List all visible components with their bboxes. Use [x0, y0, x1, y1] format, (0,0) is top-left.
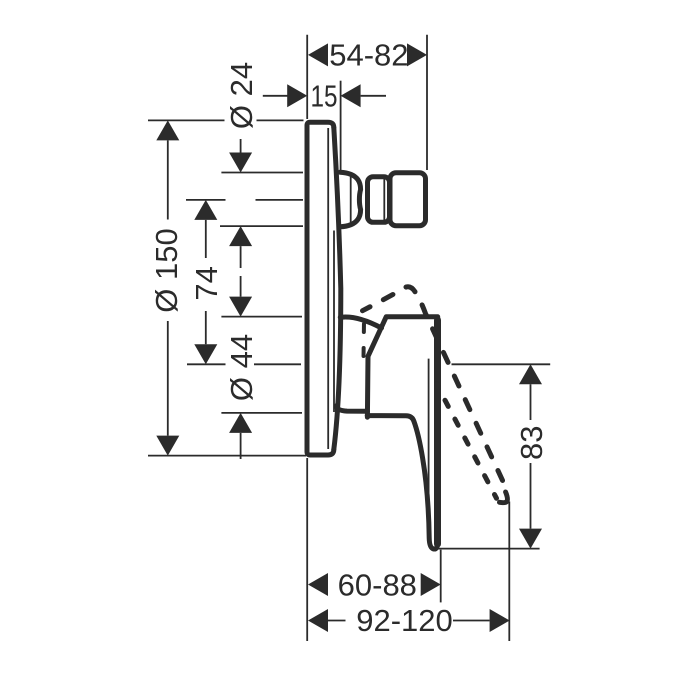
svg-text:54-82: 54-82: [329, 38, 408, 73]
svg-text:92-120: 92-120: [356, 603, 453, 638]
svg-text:60-88: 60-88: [338, 567, 417, 602]
svg-text:15: 15: [311, 79, 338, 114]
svg-text:Ø 44: Ø 44: [224, 334, 259, 401]
svg-text:Ø 24: Ø 24: [224, 62, 259, 129]
svg-text:83: 83: [514, 426, 549, 460]
svg-text:Ø 150: Ø 150: [149, 228, 184, 312]
svg-text:74: 74: [189, 266, 224, 300]
